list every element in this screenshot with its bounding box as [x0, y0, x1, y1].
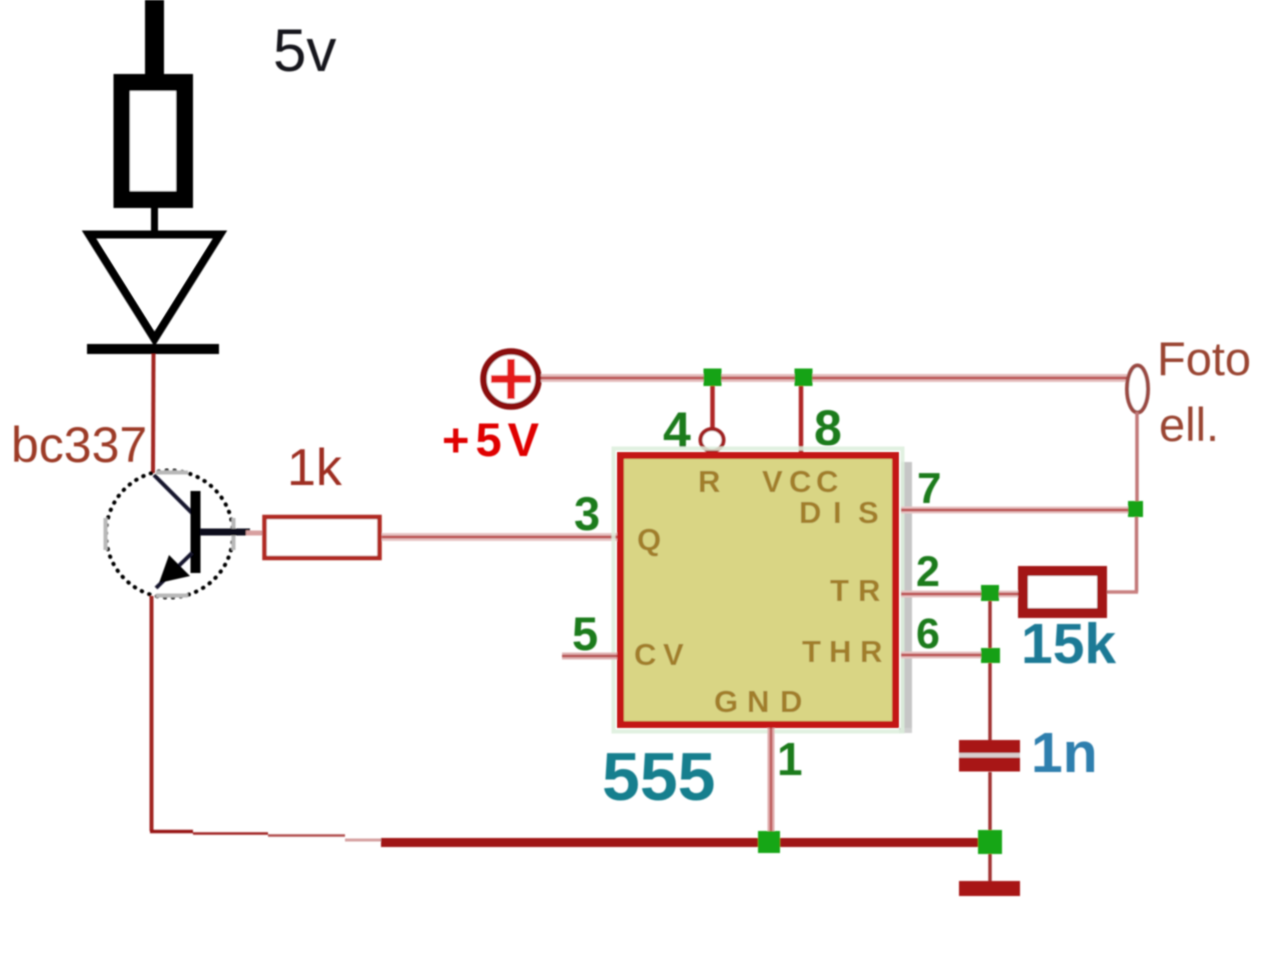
pin 6 wire (THR)	[901, 652, 983, 659]
svg-text:C: C	[816, 464, 838, 499]
svg-text:T: T	[830, 573, 849, 608]
capacitor 1n	[959, 740, 1020, 772]
svg-text:R: R	[860, 634, 882, 669]
svg-text:15k: 15k	[1021, 612, 1116, 676]
svg-text:5v: 5v	[273, 17, 336, 84]
+5V supply symbol	[484, 352, 539, 407]
svg-text:1k: 1k	[287, 439, 343, 497]
svg-text:D: D	[799, 495, 821, 530]
junction (DIS / photocell / 15k)	[1128, 501, 1143, 517]
junction (capacitor / ground net)	[978, 830, 1002, 854]
svg-text:7: 7	[917, 464, 941, 513]
IC U1 555 shadow	[901, 462, 912, 731]
resistor 15k	[1023, 571, 1102, 613]
svg-text:S: S	[858, 495, 879, 530]
svg-text:T: T	[802, 634, 821, 669]
resistor 1k	[265, 517, 380, 558]
svg-text:C: C	[634, 637, 656, 672]
svg-text:H: H	[829, 634, 851, 669]
IC U1 555 halo (mint artifact)	[614, 449, 903, 732]
svg-text:R: R	[858, 573, 880, 608]
junction (pin 4 / VCC net)	[704, 369, 722, 387]
wire emitter down	[150, 596, 154, 831]
pin 4 wire	[710, 382, 715, 429]
diode (LED, anode top)	[87, 235, 220, 350]
svg-text:I: I	[833, 495, 842, 530]
svg-text:V: V	[762, 464, 783, 499]
svg-text:3: 3	[574, 487, 600, 540]
wire 5v supply (thick black vertical)	[145, 0, 164, 78]
photocell terminal	[1127, 366, 1148, 413]
wire 1k-to-pin3	[382, 533, 617, 541]
svg-text:N: N	[747, 684, 769, 719]
wire base-to-1k (salmon)	[246, 531, 264, 536]
wire TR-to-THR vertical	[988, 601, 992, 648]
IC pin labels	[634, 464, 882, 719]
svg-text:Q: Q	[637, 522, 661, 557]
svg-text:2: 2	[916, 548, 940, 596]
svg-text:Foto: Foto	[1157, 332, 1251, 385]
ground net wire (thick)	[381, 838, 990, 847]
pin 2 wire (TR)	[901, 591, 1018, 598]
wire capacitor down to ground node	[988, 772, 992, 832]
svg-text:6: 6	[916, 610, 940, 658]
wire resistor-to-diode	[151, 208, 158, 234]
IC U1 555 body	[621, 456, 896, 725]
pin 5 wire (CV)	[562, 653, 617, 660]
junction (THR node)	[981, 648, 1000, 663]
wire THR node down to capacitor	[988, 663, 992, 742]
junction (pin 1 / ground net)	[758, 831, 780, 853]
svg-text:+5V: +5V	[442, 413, 545, 466]
junction (TR node)	[981, 585, 999, 601]
pin 7 wire (DIS)	[901, 507, 1128, 514]
pin 1 wire (GND)	[768, 728, 775, 838]
svg-text:1: 1	[777, 733, 803, 785]
svg-text:C: C	[789, 464, 811, 499]
svg-text:1n: 1n	[1031, 721, 1098, 785]
svg-text:5: 5	[572, 607, 598, 660]
junction (pin 8 / VCC net)	[795, 369, 813, 387]
pin 8 wire	[799, 382, 804, 456]
resistor (collector pull-up, black)	[114, 74, 194, 208]
ground symbol	[959, 881, 1020, 896]
pin 4 bubble	[701, 429, 724, 451]
svg-text:V: V	[663, 637, 684, 672]
net VCC (top horizontal wire)	[541, 374, 1127, 382]
svg-text:ell.: ell.	[1159, 398, 1219, 451]
wire diode-to-collector	[151, 354, 156, 473]
svg-text:D: D	[780, 684, 802, 719]
svg-text:R: R	[698, 464, 720, 499]
ground net wire (bottom, stepped)	[150, 832, 383, 841]
wire photocell down to DIS node	[1135, 412, 1139, 502]
svg-text:G: G	[714, 684, 738, 719]
svg-text:555: 555	[602, 739, 715, 815]
transistor Q1 bc337	[106, 471, 251, 598]
wire ground node to ground symbol	[988, 854, 992, 882]
wire DIS node down to 15k	[1107, 517, 1138, 592]
svg-text:bc337: bc337	[11, 417, 147, 473]
